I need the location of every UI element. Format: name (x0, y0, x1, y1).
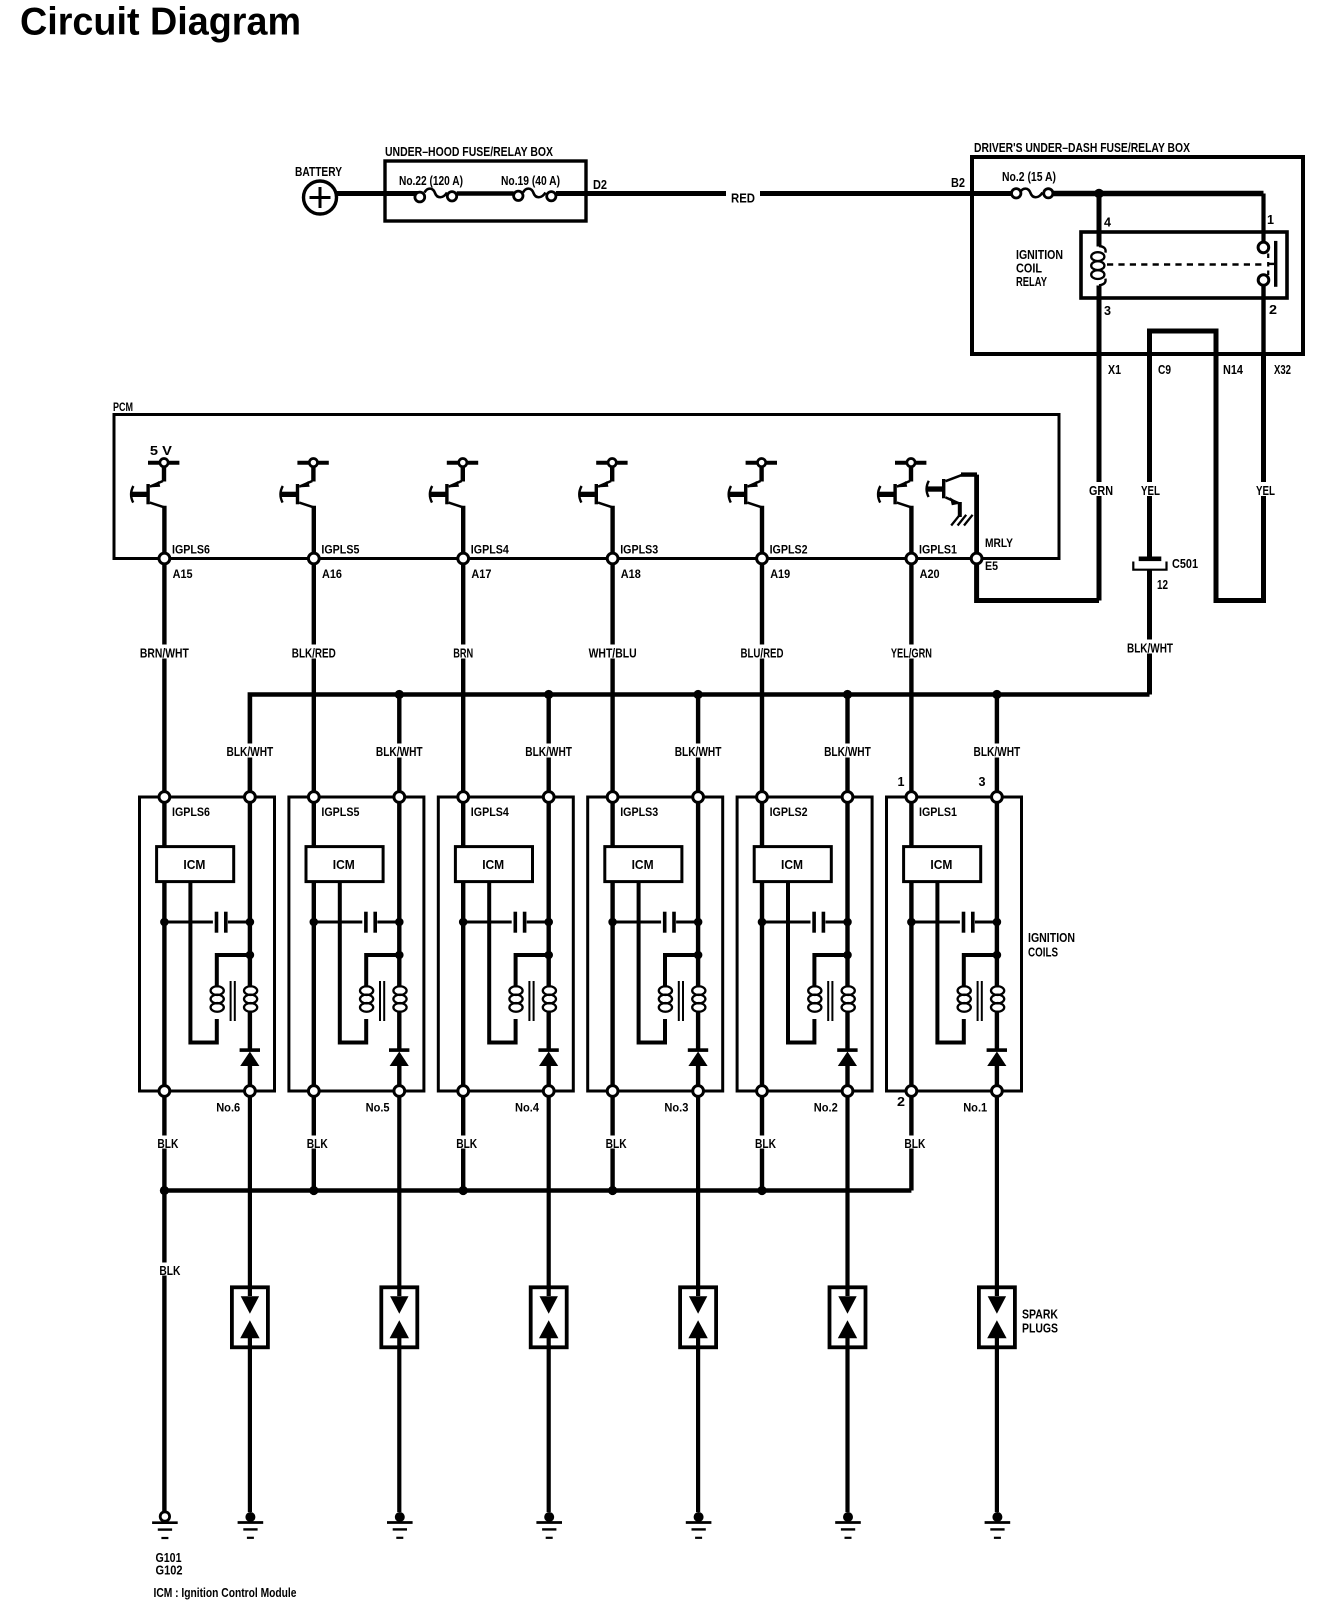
svg-text:E5: E5 (985, 559, 998, 573)
junction BLK bus (459, 1186, 468, 1195)
wire BRN (PCM A17 to ICM) (461, 564, 465, 798)
svg-text:A18: A18 (621, 567, 641, 581)
ICM box (unit No.4) (461, 802, 465, 847)
svg-text:ICM: ICM (333, 858, 355, 872)
wire spark plug to ground (397, 1338, 401, 1512)
svg-text:A15: A15 (173, 567, 193, 581)
svg-text:C501: C501 (1172, 557, 1198, 571)
svg-text:X32: X32 (1274, 363, 1291, 377)
wire BLK/WHT node down (995, 802, 999, 988)
label BLK/WHT 2 (374, 744, 425, 758)
svg-text:YEL: YEL (1141, 484, 1160, 498)
svg-text:IGPLS5: IGPLS5 (321, 543, 359, 557)
transistor Q7 (MRLY driver) (927, 475, 978, 517)
svg-text:X1: X1 (1108, 363, 1121, 377)
svg-text:No.4: No.4 (515, 1101, 539, 1115)
svg-text:IGPLS3: IGPLS3 (620, 543, 658, 557)
junction BLK/WHT drop 6 (992, 690, 1001, 699)
wire primary top to secondary node (516, 955, 549, 988)
svg-text:3: 3 (1104, 304, 1111, 318)
wire BRN/WHT (PCM A15 to ICM) (162, 564, 166, 798)
svg-text:4: 4 (1104, 216, 1111, 230)
junction BLK bus (608, 1186, 617, 1195)
wire spark plug to ground (547, 1338, 551, 1512)
capacitor C5 (noise suppressor) (758, 918, 767, 927)
wire BLK/WHT drop to ICM 5 (397, 695, 401, 798)
svg-text:IGPLS5: IGPLS5 (321, 805, 359, 819)
wire primary top to secondary node (366, 955, 399, 988)
input node BLK/WHT (842, 792, 853, 803)
input node IGPLS2 (757, 792, 768, 803)
capacitor C1 (noise suppressor) (160, 918, 169, 927)
svg-text:B2: B2 (951, 176, 965, 190)
ignition coil unit No.6 box (140, 797, 275, 1091)
wire BLK to G101/G102 (162, 1191, 166, 1513)
ICM box (unit No.2) (760, 802, 764, 847)
svg-text:1: 1 (898, 775, 905, 789)
label BLK/WHT 6 (972, 744, 1023, 758)
PCM box (114, 415, 1059, 559)
svg-text:IGPLS6: IGPLS6 (172, 805, 210, 819)
svg-text:BLU/RED: BLU/RED (741, 647, 784, 661)
transistor Q6 (IGPLS6 driver) (131, 444, 180, 507)
svg-text:BLK/WHT: BLK/WHT (1127, 642, 1173, 656)
wire coil No.2 secondary to spark plug (845, 1096, 849, 1296)
wire ICM out1 down (primary drive) (312, 882, 316, 1091)
transformer T2 secondary winding (393, 986, 406, 995)
wire BLK/RED (PCM A16 to ICM) (312, 564, 316, 798)
transformer T1 secondary winding (244, 986, 257, 995)
pcm pin E5 node (MRLY) (974, 475, 979, 559)
input node IGPLS5 (308, 792, 319, 803)
wire BLU/RED (PCM A19 to ICM) (760, 564, 764, 798)
ground (spark plug No.1) (985, 1512, 1011, 1538)
connector C501 pin 12 (1139, 557, 1162, 562)
svg-text:BLK: BLK (157, 1137, 178, 1151)
wire diode to output node (397, 1066, 401, 1091)
ignition coil unit No.1 box (887, 797, 1022, 1091)
wire between fuses (457, 191, 514, 196)
input node IGPLS1 (906, 792, 917, 803)
svg-text:5 V: 5 V (150, 444, 173, 458)
transistor Q1 (IGPLS1 driver) (878, 459, 927, 508)
svg-text:BLK: BLK (755, 1137, 776, 1151)
diode D4 (688, 1048, 708, 1052)
svg-text:COIL: COIL (1016, 262, 1042, 276)
spark plug No.3 (680, 1287, 716, 1347)
ground (spark plug No.5) (387, 1512, 413, 1538)
wire BLK/WHT node down (547, 802, 551, 988)
spark plug No.4 (531, 1287, 567, 1347)
svg-text:2: 2 (897, 1095, 905, 1109)
svg-text:GRN: GRN (1089, 484, 1113, 498)
svg-text:1: 1 (1267, 213, 1274, 227)
wire spark plug to ground (696, 1338, 700, 1512)
svg-text:A17: A17 (471, 567, 491, 581)
svg-text:ICM: ICM (183, 858, 205, 872)
junction BLK bus (757, 1186, 766, 1195)
pcm pin A18 node (IGPLS3) (610, 506, 614, 559)
capacitor C3 (noise suppressor) (459, 918, 468, 927)
svg-text:BLK/WHT: BLK/WHT (974, 745, 1021, 759)
wire secondary to diode (547, 1011, 551, 1050)
svg-text:COILS: COILS (1028, 946, 1058, 960)
pcm pin A19 node (IGPLS2) (760, 506, 764, 559)
diode D3 (538, 1048, 558, 1052)
wire BLK/WHT drop to ICM 2 (845, 695, 849, 798)
output node to spark plug No.2 (842, 1086, 853, 1097)
wire coil No.4 secondary to spark plug (547, 1096, 551, 1296)
wire ICM out2 to primary coil bottom (937, 882, 963, 1043)
svg-text:YEL: YEL (1256, 484, 1275, 498)
wire BLK/WHT node down (248, 802, 252, 988)
junction BLK/WHT drop 2 (395, 690, 404, 699)
diode D5 (837, 1048, 857, 1052)
svg-text:IGPLS4: IGPLS4 (471, 805, 509, 819)
junction on feed above relay pin 4 (1094, 189, 1104, 199)
wire X1 GRN down (1097, 354, 1102, 601)
wire ICM out2 to primary coil bottom (340, 882, 366, 1043)
diode D6 (987, 1048, 1007, 1052)
wire diode to output node (248, 1066, 252, 1091)
svg-text:BLK: BLK (606, 1137, 627, 1151)
ground (spark plug No.3) (686, 1512, 712, 1538)
wire WHT/BLU (PCM A18 to ICM) (610, 564, 614, 798)
svg-text:No.19 (40 A): No.19 (40 A) (501, 174, 560, 188)
transformer core (528, 981, 530, 1021)
svg-text:12: 12 (1157, 578, 1168, 592)
wire BLK (ICM 3 ground) (610, 1096, 614, 1191)
junction BLK bus (309, 1186, 318, 1195)
svg-text:IGPLS1: IGPLS1 (919, 805, 957, 819)
svg-text:YEL/GRN: YEL/GRN (891, 647, 932, 661)
wire ICM out1 down (primary drive) (610, 882, 614, 1091)
wire primary top to secondary node (217, 955, 250, 988)
svg-text:A20: A20 (920, 567, 940, 581)
wire diode to output node (995, 1066, 999, 1091)
svg-text:BLK/RED: BLK/RED (292, 647, 336, 661)
pcm pin A15 node (IGPLS6) (162, 506, 166, 559)
ignition coil relay box (1081, 232, 1287, 298)
wire ICM out1 down (primary drive) (909, 882, 913, 1091)
output node to spark plug No.5 (394, 1086, 405, 1097)
input node IGPLS4 (458, 792, 469, 803)
node D2 / wire RED to under-dash box (556, 191, 972, 196)
wire primary top to secondary node (814, 955, 847, 988)
wire E5 to GRN/X1 (977, 564, 1099, 601)
transistor Q4 (IGPLS4 driver) (429, 459, 478, 508)
wire BLK/WHT drop to ICM 4 (547, 695, 551, 798)
relay pin 3 wire to X1 (1097, 286, 1102, 355)
transformer T3 secondary winding (543, 986, 556, 995)
svg-text:IGPLS6: IGPLS6 (172, 543, 210, 557)
wire secondary to diode (248, 1011, 252, 1050)
svg-text:BLK: BLK (904, 1137, 925, 1151)
wire ICM out2 to primary coil bottom (639, 882, 665, 1043)
ignition coil transformer T4 primary winding (659, 986, 672, 995)
input node BLK/WHT (693, 792, 704, 803)
svg-text:IGPLS3: IGPLS3 (620, 805, 658, 819)
diode D2 (389, 1048, 409, 1052)
wire ICM out1 down (primary drive) (162, 882, 166, 1091)
svg-text:WHT/BLU: WHT/BLU (589, 647, 637, 661)
label BLK/WHT 1 (225, 744, 276, 758)
ignition coil unit No.2 box (737, 797, 872, 1091)
wire coil No.6 secondary to spark plug (248, 1096, 252, 1296)
BLK ground bus wire (164, 1188, 911, 1193)
wire coil No.5 secondary to spark plug (397, 1096, 401, 1296)
junction BLK/WHT drop 5 (843, 690, 852, 699)
junction BLK/WHT drop 4 (694, 690, 703, 699)
wire down to relay pin 1 (1261, 194, 1265, 244)
wire battery to under-hood fuse box (337, 191, 420, 196)
output node to spark plug No.4 (543, 1086, 554, 1097)
transformer T6 secondary winding (991, 986, 1004, 995)
input node BLK/WHT (245, 792, 256, 803)
transformer core (678, 981, 680, 1021)
wire primary top to secondary node (964, 955, 997, 988)
ICM box (unit No.6) (162, 802, 166, 847)
svg-text:2: 2 (1269, 303, 1277, 317)
wire ICM out2 to primary coil bottom (190, 882, 216, 1043)
svg-text:ICM: ICM (632, 858, 654, 872)
wire C9 YEL down to connector C501 (1147, 354, 1152, 557)
output node to spark plug No.3 (693, 1086, 704, 1097)
transistor Q3 (IGPLS3 driver) (579, 459, 628, 508)
transformer core (827, 981, 829, 1021)
input node BLK/WHT (543, 792, 554, 803)
pcm pin A20 node (IGPLS1) (909, 506, 913, 559)
wire secondary to diode (397, 1011, 401, 1050)
relay armature dashed link (1107, 263, 1265, 265)
output node (ICM ground side) (607, 1086, 618, 1097)
ignition coil transformer T5 primary winding (808, 986, 821, 995)
wire ICM out2 to primary coil bottom (489, 882, 515, 1043)
svg-text:BLK: BLK (159, 1264, 180, 1278)
ignition coil unit No.4 box (438, 797, 573, 1091)
spark plug No.6 (232, 1287, 268, 1347)
relay coil (1099, 246, 1106, 253)
ignition coil unit No.5 box (289, 797, 424, 1091)
wire X32 YEL down and U-turn up to N14 (1216, 354, 1264, 601)
capacitor C6 (noise suppressor) (907, 918, 916, 927)
spark plug No.1 (979, 1287, 1015, 1347)
ICM box (unit No.5) (312, 802, 316, 847)
junction BLK/WHT drop 3 (544, 690, 553, 699)
transistor Q2 (IGPLS2 driver) (728, 459, 777, 508)
input node BLK/WHT (992, 792, 1003, 803)
transformer core (230, 981, 232, 1021)
svg-text:ICM: ICM (781, 858, 803, 872)
svg-text:SPARK: SPARK (1022, 1308, 1058, 1322)
wire BLK (ICM 2 ground) (760, 1096, 764, 1191)
label BLK/WHT 5 (822, 744, 873, 758)
pcm pin A17 node (IGPLS4) (461, 506, 465, 559)
wire primary top to secondary node (665, 955, 698, 988)
svg-text:IGNITION: IGNITION (1016, 248, 1063, 262)
wire ICM out2 to primary coil bottom (788, 882, 814, 1043)
svg-text:D2: D2 (593, 178, 607, 192)
ground (spark plug No.2) (835, 1512, 861, 1538)
svg-text:RED: RED (731, 192, 755, 206)
svg-text:No.3: No.3 (664, 1101, 688, 1115)
svg-text:IGPLS1: IGPLS1 (919, 543, 957, 557)
input node IGPLS3 (607, 792, 618, 803)
wire diode to output node (547, 1066, 551, 1091)
ignition coil transformer T1 primary winding (211, 986, 224, 995)
output node to spark plug No.6 (245, 1086, 256, 1097)
svg-text:No.22 (120 A): No.22 (120 A) (399, 174, 463, 188)
svg-text:RELAY: RELAY (1016, 275, 1047, 289)
output node (ICM ground side) (308, 1086, 319, 1097)
svg-text:A16: A16 (322, 567, 342, 581)
svg-text:BLK/WHT: BLK/WHT (227, 745, 274, 759)
svg-text:No.6: No.6 (216, 1101, 240, 1115)
ignition coil transformer T2 primary winding (360, 986, 373, 995)
svg-text:BLK/WHT: BLK/WHT (675, 745, 722, 759)
svg-text:ICM : Ignition Control Module: ICM : Ignition Control Module (154, 1585, 297, 1600)
battery (304, 181, 337, 214)
svg-text:BRN/WHT: BRN/WHT (140, 647, 189, 661)
junction BLK bus (160, 1186, 169, 1195)
wire BLK/WHT node down (845, 802, 849, 988)
wire BLK (ICM 5 ground) (312, 1096, 316, 1191)
wire BLK/WHT node down (397, 802, 401, 988)
wire spark plug to ground (845, 1338, 849, 1512)
wire diode to output node (845, 1066, 849, 1091)
wire diode to output node (696, 1066, 700, 1091)
svg-text:BLK/WHT: BLK/WHT (376, 745, 423, 759)
svg-text:IGPLS2: IGPLS2 (770, 543, 808, 557)
svg-text:ICM: ICM (930, 858, 952, 872)
input node IGPLS6 (159, 792, 170, 803)
wire BLK/WHT drop to ICM 3 (696, 695, 700, 798)
wire fuse to relay pins 1 and 4 (1053, 191, 1264, 197)
ignition coil transformer T6 primary winding (958, 986, 971, 995)
wire BLK (ICM 1 ground) (909, 1096, 913, 1191)
wire BLK (ICM 6 ground) (162, 1096, 166, 1191)
output node (ICM ground side) (906, 1086, 917, 1097)
wire spark plug to ground (248, 1338, 252, 1512)
capacitor C4 (noise suppressor) (608, 918, 617, 927)
spark plug No.5 (381, 1287, 417, 1347)
svg-text:IGNITION: IGNITION (1028, 931, 1075, 945)
transformer T4 secondary winding (692, 986, 705, 995)
svg-text:Circuit Diagram: Circuit Diagram (20, 1, 301, 44)
svg-text:A19: A19 (770, 567, 790, 581)
svg-text:BLK: BLK (307, 1137, 328, 1151)
svg-text:No.2 (15 A): No.2 (15 A) (1002, 170, 1056, 184)
svg-text:BATTERY: BATTERY (295, 165, 343, 179)
svg-text:UNDER–HOOD FUSE/RELAY BOX: UNDER–HOOD FUSE/RELAY BOX (385, 145, 554, 159)
transformer T5 secondary winding (842, 986, 855, 995)
svg-text:BLK/WHT: BLK/WHT (824, 745, 871, 759)
ground (spark plug No.6) (238, 1512, 264, 1538)
output node (ICM ground side) (757, 1086, 768, 1097)
BLK/WHT bus wire (250, 695, 1150, 798)
ICM box (unit No.1) (909, 802, 913, 847)
svg-text:No.2: No.2 (814, 1101, 838, 1115)
relay pin 2 wire to X32 (1261, 285, 1265, 354)
svg-text:MRLY: MRLY (985, 536, 1013, 550)
output node (ICM ground side) (159, 1086, 170, 1097)
relay contact (1258, 242, 1269, 253)
svg-text:N14: N14 (1223, 363, 1243, 377)
output node to spark plug No.1 (992, 1086, 1003, 1097)
transistor Q5 (IGPLS5 driver) (280, 459, 329, 508)
ground G101 G102 (152, 1512, 178, 1538)
wire YEL/GRN (PCM A20 to ICM) (909, 564, 913, 798)
label BLK/WHT 4 (673, 744, 724, 758)
wire coil No.3 secondary to spark plug (696, 1096, 700, 1296)
ICM box (unit No.3) (610, 802, 614, 847)
svg-text:BLK/WHT: BLK/WHT (525, 745, 572, 759)
transformer core (379, 981, 381, 1021)
wire secondary to diode (696, 1011, 700, 1050)
capacitor C2 (noise suppressor) (310, 918, 319, 927)
svg-text:BRN: BRN (453, 647, 473, 661)
svg-text:DRIVER'S UNDER–DASH FUSE/RELAY: DRIVER'S UNDER–DASH FUSE/RELAY BOX (974, 141, 1191, 155)
under-hood fuse/relay box (385, 161, 586, 221)
driver's under-dash fuse/relay box (972, 157, 1303, 354)
ignition coil transformer T3 primary winding (509, 986, 522, 995)
ignition coil unit No.3 box (588, 797, 723, 1091)
ground (spark plug No.4) (536, 1512, 562, 1538)
label BLK/WHT 3 (523, 744, 574, 758)
wire BLK/WHT drop to ICM 1 (995, 695, 999, 798)
svg-text:G102: G102 (156, 1564, 183, 1578)
input node BLK/WHT (394, 792, 405, 803)
wire ICM out1 down (primary drive) (760, 882, 764, 1091)
spark plug No.2 (830, 1287, 866, 1347)
wire spark plug to ground (995, 1338, 999, 1512)
transformer core (977, 981, 979, 1021)
output node (ICM ground side) (458, 1086, 469, 1097)
svg-text:No.5: No.5 (366, 1101, 390, 1115)
wire secondary to diode (995, 1011, 999, 1050)
diode D1 (240, 1048, 260, 1052)
wire C501 to BLK/WHT bus (1147, 570, 1152, 695)
svg-text:C9: C9 (1158, 363, 1171, 377)
wire down to relay pin 4 (1097, 194, 1102, 247)
svg-text:PLUGS: PLUGS (1022, 1322, 1058, 1336)
pcm pin A16 node (IGPLS5) (312, 506, 316, 559)
svg-text:IGPLS2: IGPLS2 (770, 805, 808, 819)
wire secondary to diode (845, 1011, 849, 1050)
wire BLK/WHT label (C501 to bus) (1125, 640, 1175, 654)
svg-text:IGPLS4: IGPLS4 (471, 543, 509, 557)
wire coil No.1 secondary to spark plug (995, 1096, 999, 1296)
wire ICM out1 down (primary drive) (461, 882, 465, 1091)
wire BLK (ICM 4 ground) (461, 1096, 465, 1191)
svg-text:BLK: BLK (456, 1137, 477, 1151)
svg-text:No.1: No.1 (963, 1101, 987, 1115)
svg-text:PCM: PCM (113, 400, 133, 414)
C9-N14 link wire inside box (1150, 331, 1217, 354)
ground (PCM internal, MRLY emitter) (951, 515, 972, 526)
wire BLK/WHT node down (696, 802, 700, 988)
svg-text:ICM: ICM (482, 858, 504, 872)
svg-text:3: 3 (979, 775, 986, 789)
